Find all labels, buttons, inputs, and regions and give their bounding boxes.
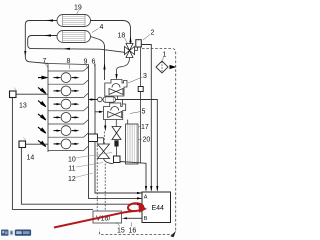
suction line x95	[95, 64, 142, 194]
evaporator bank frame	[48, 64, 89, 153]
arrow down F1 into E44	[145, 186, 147, 192]
labels 10 11 12	[68, 156, 76, 183]
labels 7 8 9 6	[43, 58, 96, 66]
wire SB1 down	[140, 92, 142, 164]
svg-text:11: 11	[68, 166, 75, 173]
valve 18 (four-way)	[125, 44, 135, 58]
svg-text:9: 9	[84, 59, 88, 66]
valve3 outlet	[117, 96, 119, 100]
svg-text:10: 10	[68, 156, 76, 163]
svg-text:12: 12	[68, 176, 76, 183]
svg-text:13: 13	[19, 103, 27, 110]
arrow left on line A	[63, 48, 70, 50]
wire to box B5	[116, 147, 118, 157]
svg-text:7: 7	[43, 58, 47, 65]
label 4	[92, 24, 104, 33]
box B5	[114, 156, 121, 163]
solenoid valve V2 (bowtie)	[98, 144, 110, 159]
svg-text:20: 20	[143, 137, 151, 144]
label 17	[138, 124, 149, 131]
svg-text:E44: E44	[152, 205, 165, 212]
svg-text:16: 16	[129, 228, 137, 235]
arrow into E44 port A	[137, 192, 142, 194]
sensor box 14	[19, 138, 48, 148]
muffler capsule	[103, 97, 116, 103]
svg-text:8: 8	[67, 58, 71, 65]
watermark bottom-left	[1, 230, 31, 236]
wire riser to bank top (line B)	[25, 52, 48, 64]
svg-text:14: 14	[27, 155, 35, 162]
svg-text:18: 18	[118, 33, 126, 40]
dashed boundary top	[142, 49, 176, 231]
arrow on liquid line	[91, 98, 97, 100]
wire condenser19 right to valve18 top	[91, 21, 131, 44]
muffler box 2	[135, 40, 142, 51]
small box SB1	[138, 87, 143, 92]
liquid line y99.5	[89, 100, 158, 191]
arrow up into condenser line x130.5	[129, 36, 131, 43]
bank row lines	[48, 67, 89, 151]
manifold x88.5	[89, 65, 143, 199]
arrow right of diamond	[170, 65, 177, 69]
valve5 left inlet from suction line	[95, 111, 100, 113]
wire condenser4 right down to cluster riser x104.5	[91, 37, 105, 81]
arrow into E44 port2	[137, 197, 142, 199]
svg-text:4: 4	[100, 24, 104, 31]
wire condenser19 left to riser	[25, 21, 57, 53]
valve5 right outlet	[115, 120, 117, 127]
wire E44 B to V18	[127, 217, 142, 219]
svg-text:19: 19	[74, 5, 82, 12]
wire B5 to F1 corner	[120, 162, 146, 191]
svg-text:15: 15	[117, 228, 125, 235]
dashed boundary bottom	[100, 230, 175, 235]
condenser 19	[57, 15, 91, 27]
svg-text:A: A	[144, 195, 148, 201]
bank air arrows left outer	[38, 76, 47, 146]
label 1	[163, 52, 167, 61]
wire box13 down to V-box	[12, 98, 93, 210]
label 18	[118, 33, 128, 44]
wire condenser4 left to inner riser	[28, 36, 57, 45]
arrow into E44 port3	[137, 203, 142, 205]
dashed control from B6 down to V18	[96, 142, 98, 212]
svg-text:3: 3	[143, 73, 147, 80]
label 3	[128, 73, 147, 83]
label 20	[138, 137, 150, 144]
branch to valve5	[122, 100, 124, 107]
wire box14 down to E44 port3	[21, 148, 142, 205]
labels 15 16	[117, 228, 136, 235]
arrow left on wire y20.5	[46, 19, 53, 21]
condenser 4	[57, 31, 91, 43]
solenoid valve V1 (bowtie vertical)	[112, 127, 121, 140]
arrow down into valve 3	[115, 74, 117, 80]
wire B6 to V2 top	[98, 138, 104, 144]
red annotation arrow	[54, 203, 143, 227]
red arrowhead at B	[138, 203, 147, 212]
svg-text:17: 17	[141, 124, 149, 131]
svg-text:2: 2	[151, 30, 155, 37]
box B6	[89, 134, 98, 142]
wire valve18 bottom to valve3 top	[117, 58, 130, 75]
valve5 left outlet with down arrow	[104, 120, 106, 127]
boundary corner arrow	[170, 231, 176, 238]
blower circles of bank	[61, 73, 71, 149]
wire box2 to E44 feed F2	[141, 45, 151, 191]
arrow left on wire y35.5	[44, 34, 51, 36]
svg-text:1: 1	[163, 52, 167, 59]
arrow down on riser x25.3	[24, 51, 26, 57]
arrow down F3 into E44	[156, 186, 158, 192]
label 5	[130, 109, 146, 116]
arrow down F2 into E44	[150, 186, 152, 192]
wire box2 bottom to small box SB1	[140, 47, 142, 87]
pump circle	[98, 97, 103, 102]
dashed control to solenoid valve V2	[103, 132, 105, 147]
wire line A to valve18	[28, 45, 125, 53]
label 19	[74, 5, 82, 15]
arrow up on riser x104.5	[103, 63, 105, 70]
solenoid coil (black)	[114, 140, 118, 146]
sensor box 13	[10, 88, 49, 98]
label 2	[143, 30, 155, 41]
svg-text:5: 5	[142, 109, 146, 116]
E44 control unit	[142, 192, 171, 223]
wire V2 to line F1	[104, 159, 114, 164]
bank flow arrows inner left and right	[54, 78, 76, 144]
expansion valve 5	[104, 103, 126, 120]
dashed control line x104 down to V18	[104, 164, 106, 212]
receiver top stub	[127, 120, 129, 125]
svg-text:B: B	[144, 216, 148, 222]
V18 valve box (red marked)	[93, 211, 122, 223]
filter 1 (diamond)	[156, 61, 168, 73]
receiver drier 17/20	[126, 124, 139, 164]
expansion valve 3	[105, 80, 127, 97]
